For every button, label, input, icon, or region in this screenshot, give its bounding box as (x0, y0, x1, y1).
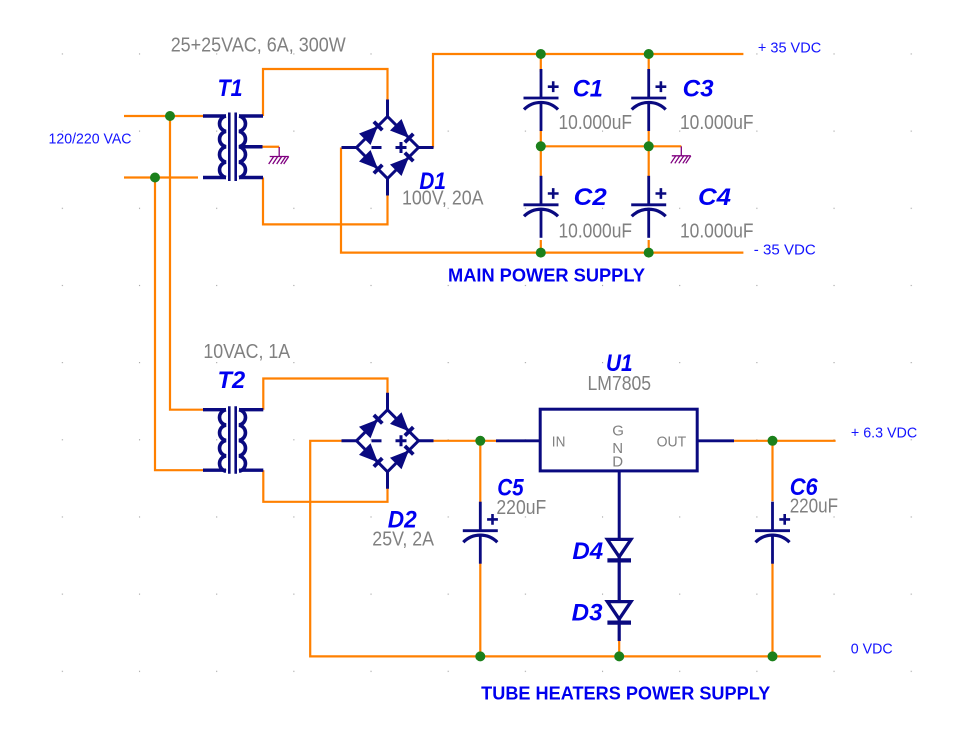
svg-text:D3: D3 (572, 600, 604, 627)
wire C6 leads (771, 441, 773, 657)
capacitor C4 (631, 176, 666, 238)
wire +35V rail from D1 plus (433, 54, 743, 148)
capacitor C1 (524, 69, 559, 131)
wire U1 OUT to +6.3V rail (734, 440, 836, 442)
svg-text:D: D (612, 454, 623, 471)
wire D2 minus to 0V rail (310, 441, 821, 657)
svg-text:TUBE HEATERS POWER SUPPLY: TUBE HEATERS POWER SUPPLY (481, 683, 770, 703)
junction node C1-C2 mid (536, 141, 546, 151)
junction node C2 bottom (536, 248, 546, 258)
svg-text:220uF: 220uF (496, 497, 546, 519)
svg-text:G: G (612, 423, 624, 440)
wire AC top branch down to T2 (170, 116, 203, 410)
svg-text:+ 6.3 VDC: + 6.3 VDC (851, 425, 917, 442)
wire T2 secondary top to bridge D2 AC top (263, 379, 387, 410)
svg-text:C3: C3 (683, 76, 715, 103)
svg-text:220uF: 220uF (790, 496, 838, 518)
svg-text:120/220 VAC: 120/220 VAC (49, 131, 132, 148)
U1 IN lead (496, 439, 540, 442)
svg-text:10.000uF: 10.000uF (559, 221, 633, 243)
wire T1 center tap stub (263, 146, 280, 148)
svg-text:- 35 VDC: - 35 VDC (754, 242, 816, 259)
junction node C6 bottom (768, 651, 778, 661)
junction node C1 top (536, 49, 546, 59)
wire C3 leads (648, 54, 650, 146)
wire T1 secondary bottom to bridge D1 AC bottom (263, 178, 388, 225)
wire D2 plus to U1 IN (433, 440, 497, 442)
svg-text:25+25VAC, 6A, 300W: 25+25VAC, 6A, 300W (171, 34, 346, 56)
svg-text:25V, 2A: 25V, 2A (372, 529, 434, 551)
junction node C6 top (768, 436, 778, 446)
capacitor C6 (755, 502, 790, 564)
wire C1 leads (540, 54, 542, 146)
capacitor C2 (524, 176, 559, 238)
svg-text:OUT: OUT (657, 434, 687, 451)
U1 GND lead (618, 471, 621, 539)
svg-text:+ 35 VDC: + 35 VDC (758, 39, 821, 56)
svg-text:T2: T2 (218, 367, 246, 394)
ground at capacitor midpoint rail (671, 146, 691, 163)
bridge rectifier D2 (342, 393, 434, 489)
wire AC top to T1 primary (124, 115, 203, 117)
junction node D3 bottom (614, 651, 624, 661)
wire C5 leads (479, 441, 481, 657)
svg-text:MAIN POWER SUPPLY: MAIN POWER SUPPLY (448, 265, 645, 285)
svg-text:10.000uF: 10.000uF (559, 112, 633, 134)
junction node C3 top (644, 49, 654, 59)
bridge rectifier D1 (342, 100, 434, 196)
wire C4 leads (648, 146, 650, 252)
wire AC bottom to T1 primary (124, 176, 198, 178)
junction node T1 bottom (150, 173, 160, 183)
wire capacitor midpoint rail (541, 145, 682, 147)
transformer T1 (203, 113, 263, 182)
ground at T1 center tap (269, 147, 289, 164)
svg-text:10VAC, 1A: 10VAC, 1A (203, 341, 290, 363)
svg-text:100V, 20A: 100V, 20A (402, 188, 484, 210)
capacitor C5 (463, 502, 498, 564)
transformer T2 (203, 406, 263, 474)
wire AC bottom branch down to T2 (155, 178, 203, 471)
wire -35V rail from D1 minus (341, 148, 743, 253)
wire T1 secondary top to bridge D1 AC top (263, 69, 388, 116)
wire D3 cathode to 0V rail (618, 641, 620, 656)
svg-text:LM7805: LM7805 (588, 373, 652, 395)
svg-text:D4: D4 (572, 538, 603, 565)
svg-text:10.000uF: 10.000uF (680, 221, 754, 243)
wire C2 leads (540, 146, 542, 252)
wire T2 secondary bottom to bridge D2 AC bottom (263, 470, 387, 502)
U1 OUT lead (697, 439, 734, 442)
diode D4 (607, 539, 631, 601)
junction node C5 top (475, 436, 485, 446)
svg-text:0 VDC: 0 VDC (851, 640, 893, 657)
svg-text:T1: T1 (218, 75, 243, 102)
junction node T1 top (165, 111, 175, 121)
svg-text:C1: C1 (573, 76, 603, 103)
capacitor C3 (631, 69, 666, 131)
svg-text:C4: C4 (698, 184, 731, 211)
junction node C3-C4 mid (644, 141, 654, 151)
junction node C5 bottom (475, 651, 485, 661)
svg-text:IN: IN (552, 434, 566, 451)
diode D3 (607, 602, 631, 641)
svg-text:C2: C2 (574, 184, 608, 211)
junction node C4 bottom (644, 248, 654, 258)
svg-text:10.000uF: 10.000uF (680, 112, 754, 134)
regulator U1 box (540, 409, 697, 471)
